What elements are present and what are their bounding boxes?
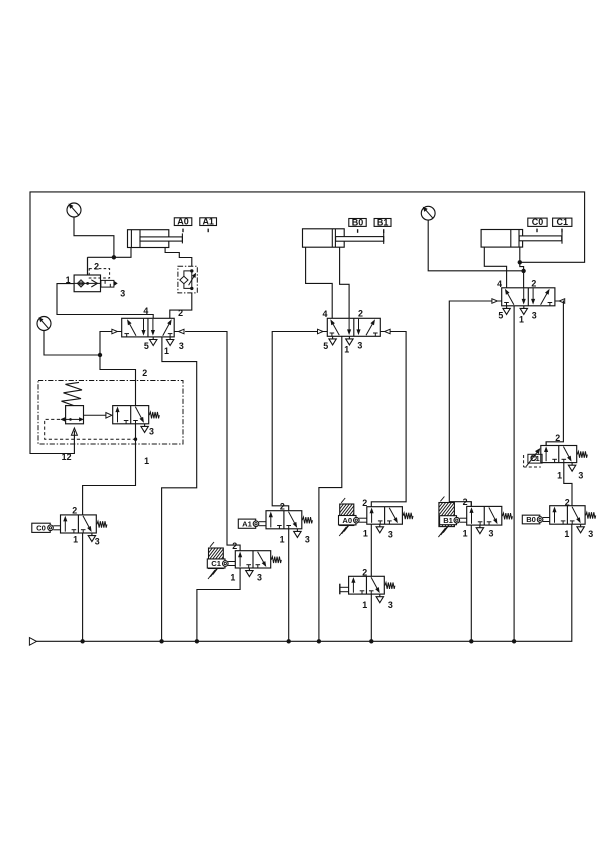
svg-text:3: 3	[305, 534, 310, 544]
svg-text:2: 2	[232, 541, 237, 551]
svg-text:2: 2	[142, 368, 147, 378]
svg-text:3: 3	[388, 529, 393, 539]
svg-text:C0: C0	[532, 217, 544, 227]
svg-text:A0: A0	[342, 516, 352, 525]
svg-text:A1: A1	[242, 519, 252, 528]
svg-text:4: 4	[323, 309, 328, 319]
svg-text:1: 1	[519, 315, 524, 325]
svg-text:3: 3	[388, 600, 393, 610]
svg-text:A0: A0	[177, 217, 189, 227]
svg-text:3: 3	[578, 471, 583, 481]
svg-text:1: 1	[557, 471, 562, 481]
svg-text:1: 1	[73, 535, 78, 545]
svg-text:1: 1	[564, 529, 569, 539]
svg-text:5: 5	[144, 341, 149, 351]
svg-text:2: 2	[72, 506, 77, 516]
svg-text:1: 1	[344, 345, 349, 355]
svg-text:3: 3	[489, 529, 494, 539]
svg-text:2: 2	[358, 309, 363, 319]
svg-text:1: 1	[230, 573, 235, 583]
svg-text:1: 1	[362, 600, 367, 610]
svg-text:2: 2	[94, 262, 99, 272]
svg-text:B1: B1	[443, 516, 453, 525]
svg-text:2: 2	[531, 279, 536, 289]
svg-text:2: 2	[555, 433, 560, 443]
svg-text:B0: B0	[526, 515, 536, 524]
svg-text:2: 2	[362, 567, 367, 577]
svg-text:3: 3	[149, 427, 154, 437]
svg-text:3: 3	[532, 310, 537, 320]
svg-text:1: 1	[280, 534, 285, 544]
svg-text:4: 4	[497, 279, 502, 289]
svg-text:3: 3	[120, 289, 125, 299]
svg-text:3: 3	[257, 573, 262, 583]
svg-text:5: 5	[498, 310, 503, 320]
svg-text:B0: B0	[352, 217, 364, 227]
svg-text:1: 1	[164, 346, 169, 356]
svg-text:4: 4	[143, 306, 148, 316]
svg-text:B1: B1	[377, 217, 389, 227]
svg-text:3: 3	[179, 341, 184, 351]
svg-text:1: 1	[363, 529, 368, 539]
svg-text:2: 2	[565, 498, 570, 508]
svg-text:1: 1	[144, 456, 149, 466]
svg-text:1: 1	[463, 529, 468, 539]
svg-text:2: 2	[178, 308, 183, 318]
svg-text:12: 12	[62, 452, 72, 462]
svg-text:C0: C0	[36, 524, 46, 533]
svg-text:1: 1	[66, 275, 71, 285]
svg-text:2: 2	[463, 497, 468, 507]
svg-text:2: 2	[362, 498, 367, 508]
svg-text:C1: C1	[557, 217, 569, 227]
svg-text:A1: A1	[202, 217, 214, 227]
svg-text:5: 5	[323, 341, 328, 351]
svg-text:3: 3	[95, 536, 100, 546]
svg-text:2: 2	[280, 502, 285, 512]
svg-text:3: 3	[588, 529, 593, 539]
svg-text:C1: C1	[211, 559, 221, 568]
svg-text:3: 3	[357, 340, 362, 350]
